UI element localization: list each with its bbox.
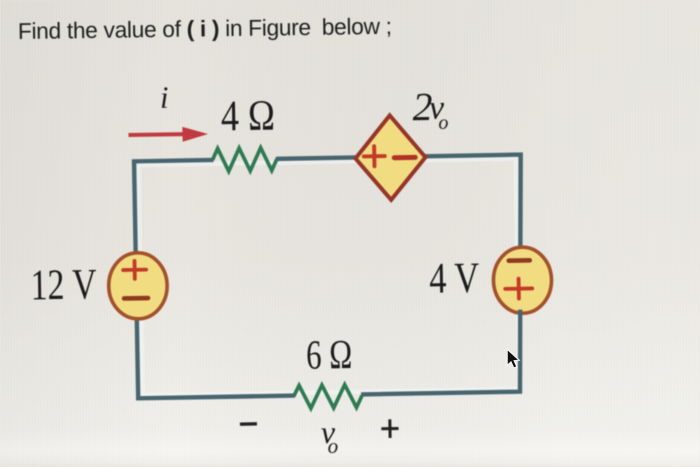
plus sign in 4V source: [505, 278, 532, 298]
current arrow i: [128, 126, 208, 142]
wire top-middle segment: [276, 157, 357, 158]
resistor R2 6ohm zigzag: [293, 384, 362, 408]
label 2vo: [412, 84, 448, 135]
resistor R1 4ohm zigzag: [212, 147, 277, 171]
mouse cursor: [507, 349, 519, 368]
inner glow along wires: [139, 158, 520, 395]
label vo: [321, 414, 339, 458]
label plus of vo: [381, 419, 399, 438]
dependent source diamond 2vo: [355, 115, 426, 201]
wire top-right segment with corner: [425, 155, 522, 254]
minus sign in 12V source: [124, 296, 148, 301]
plus sign inside diamond: [364, 146, 385, 166]
label minus of vo: [240, 422, 257, 426]
wire bottom-left segment with corner: [137, 314, 295, 399]
minus sign in 4V source: [509, 258, 530, 263]
title text: [18, 13, 392, 44]
minus sign inside diamond: [394, 155, 415, 160]
voltage source V2 4V circle: [493, 247, 552, 314]
plus sign in 12V source: [123, 261, 146, 279]
voltage source V1 12V circle: [108, 252, 168, 319]
wire right lower segment with corner: [360, 310, 522, 395]
wire top-left segment with corner: [134, 160, 215, 253]
